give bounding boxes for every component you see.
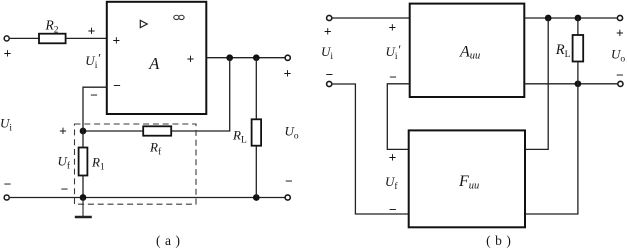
- svg-text:Rf: Rf: [149, 140, 162, 158]
- svg-text:Uo: Uo: [285, 123, 299, 141]
- triangle symbol: [140, 20, 147, 27]
- feedback wire bottom (Uo- to Fuu): [525, 84, 578, 214]
- svg-text:Uf: Uf: [385, 174, 398, 192]
- svg-text:Ui′: Ui′: [85, 51, 100, 71]
- junction dot (feedback tap top): [545, 15, 552, 22]
- svg-text:R1: R1: [91, 155, 105, 173]
- wire Auu inverting input from Fuu: [387, 84, 410, 150]
- wire node to R1: [82, 131, 84, 148]
- junction dot (output/feedback): [226, 54, 233, 61]
- svg-text:+: +: [389, 20, 397, 35]
- input terminal top (b): [327, 15, 332, 20]
- block Fuu: [409, 130, 525, 227]
- svg-text:( b ): ( b ): [486, 233, 511, 248]
- svg-text:+: +: [389, 150, 397, 165]
- svg-text:−: −: [389, 69, 397, 84]
- resistor RL (a): [252, 119, 262, 145]
- junction dot (RL top, b): [575, 15, 582, 22]
- svg-text:RL: RL: [232, 128, 247, 146]
- svg-text:−: −: [616, 68, 624, 83]
- svg-text:+: +: [324, 24, 332, 39]
- junction dot (output/RL): [253, 54, 260, 61]
- dashed feedback network box: [75, 124, 197, 204]
- svg-text:Uo: Uo: [611, 46, 625, 64]
- junction dot (RL bottom, b): [575, 80, 582, 87]
- svg-text:+: +: [616, 26, 624, 41]
- output wire top (b): [524, 17, 617, 19]
- wire input to R2: [10, 37, 39, 39]
- svg-text:Ui: Ui: [0, 116, 12, 134]
- node dot (Rf / R1 junction): [80, 128, 87, 135]
- wire input to Auu: [332, 17, 409, 19]
- svg-text:−: −: [4, 177, 12, 192]
- wire Rf to node: [83, 130, 143, 132]
- resistor R2: [39, 34, 66, 44]
- feedback wire top (Uo+ to Fuu): [525, 18, 548, 149]
- svg-text:RL: RL: [555, 42, 571, 60]
- ground: [75, 198, 92, 218]
- svg-text:( a ): ( a ): [156, 233, 180, 248]
- svg-text:A: A: [148, 54, 160, 73]
- svg-text:Uf: Uf: [58, 153, 71, 171]
- wire R1 to bottom: [82, 176, 84, 198]
- output wire: [206, 57, 285, 59]
- svg-text:+: +: [187, 52, 195, 67]
- feedback wire down from output: [171, 58, 230, 131]
- bottom wire: [10, 197, 285, 199]
- op-amp block A: [107, 2, 207, 114]
- svg-text:+: +: [113, 33, 121, 48]
- output terminal top (b): [617, 15, 622, 20]
- svg-text:Ui′: Ui′: [386, 42, 401, 62]
- wire RL top lead (b): [577, 18, 579, 35]
- wire Ui- loop to Fuu: [333, 84, 410, 214]
- wire node to inverting input: [83, 87, 107, 131]
- wire RL to bottom: [255, 146, 257, 198]
- svg-text:−: −: [325, 67, 333, 82]
- input terminal bottom (b): [327, 81, 332, 86]
- wire output to RL: [255, 58, 257, 120]
- resistor RL (b): [573, 35, 584, 62]
- output terminal (a): [285, 55, 290, 60]
- wire RL bottom lead (b): [577, 62, 579, 84]
- infinity symbol: [174, 15, 184, 19]
- output wire bottom (b): [524, 83, 617, 85]
- output terminal bottom (b): [618, 81, 623, 86]
- bottom-right terminal (a): [285, 195, 290, 200]
- input terminal (top-left, a): [4, 36, 9, 41]
- svg-text:+: +: [284, 66, 292, 81]
- svg-text:+: +: [4, 46, 12, 61]
- svg-text:−: −: [90, 88, 98, 103]
- junction dot (RL bottom): [253, 194, 260, 201]
- svg-text:−: −: [285, 173, 293, 188]
- block Auu: [410, 4, 525, 97]
- wire R2 to op-amp: [66, 37, 107, 39]
- svg-text:−: −: [389, 202, 397, 217]
- svg-text:+: +: [88, 24, 96, 39]
- svg-text:−: −: [61, 182, 69, 197]
- svg-text:Ui: Ui: [321, 44, 333, 62]
- bottom-left terminal (a): [4, 195, 9, 200]
- svg-text:+: +: [59, 124, 67, 139]
- svg-text:−: −: [113, 78, 121, 93]
- resistor Rf: [143, 126, 171, 135]
- resistor R1: [79, 148, 88, 176]
- svg-text:R2: R2: [45, 17, 59, 35]
- junction dot (ground node): [80, 194, 87, 201]
